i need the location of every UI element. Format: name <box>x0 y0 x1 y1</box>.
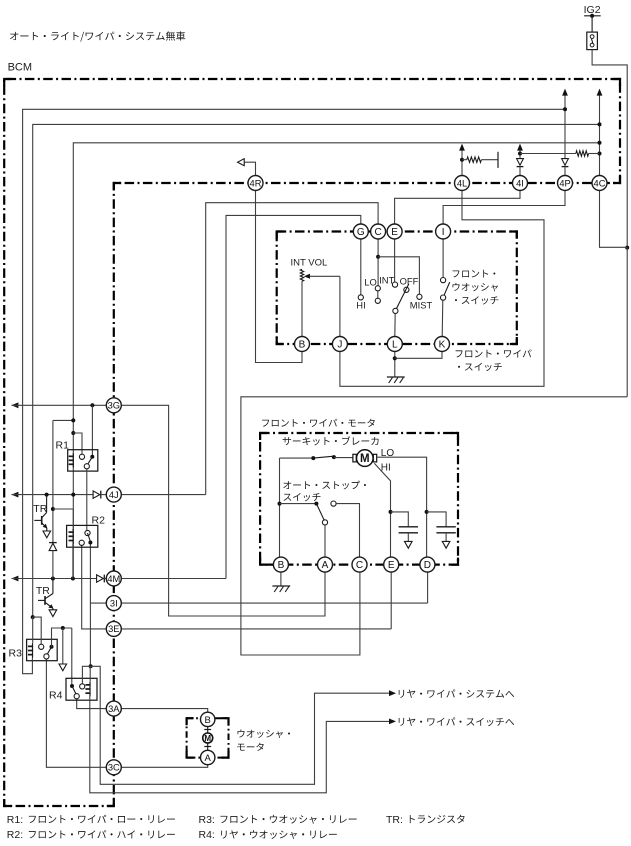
svg-text:MIST: MIST <box>410 299 433 310</box>
capacitor C1 <box>391 512 419 542</box>
svg-text:E: E <box>391 227 398 238</box>
connector D motor <box>420 557 435 572</box>
washer switch blade base <box>441 295 446 300</box>
diode on 4J line <box>93 491 101 499</box>
front wiper switch label l2 <box>458 363 502 371</box>
auto stop blade contact <box>322 520 327 525</box>
junction L/K ground <box>393 356 397 360</box>
pot wiper arrow <box>304 274 310 279</box>
wire breaker left <box>280 457 314 459</box>
junction E line capacitor <box>389 510 393 514</box>
wire resistor to terminal <box>481 159 498 161</box>
wire G to 4M line <box>226 215 361 578</box>
svg-text:R3: R3 <box>9 647 23 659</box>
relay R3 output contact <box>44 654 49 659</box>
junction R4 feed <box>89 664 93 668</box>
relay R4 output contact <box>74 694 79 699</box>
wire wiper down to J <box>339 276 341 336</box>
to rear wiper system label <box>399 689 515 697</box>
fuse IG2 <box>587 32 598 50</box>
wire E drop <box>390 572 392 629</box>
svg-text:B: B <box>278 560 285 571</box>
wire 3C to washer A <box>121 765 207 768</box>
svg-text:4M: 4M <box>107 574 120 584</box>
transistor TR1 <box>34 495 47 531</box>
svg-text:L: L <box>392 340 398 351</box>
svg-text:TR: TR <box>36 585 50 597</box>
relay R4 box <box>66 678 97 700</box>
svg-text:M: M <box>204 734 211 743</box>
front wiper motor label <box>262 419 375 427</box>
svg-text:K: K <box>439 340 446 351</box>
washer connector B <box>201 712 215 726</box>
wire TR/R2 feed column <box>52 420 54 542</box>
svg-text:BCM: BCM <box>8 62 32 74</box>
connector 4R <box>248 176 263 191</box>
wire C down <box>377 239 379 286</box>
wire 4L riser <box>461 150 463 175</box>
wire L to ground <box>394 352 396 378</box>
svg-text:C: C <box>374 227 381 238</box>
arrow 4I riser <box>517 144 523 151</box>
wire 3I left to R2/R4 column <box>90 602 106 604</box>
relay R3 coil <box>28 643 33 658</box>
auto stop switch label l1 <box>283 481 366 490</box>
arrow to rear wiper switch <box>389 719 396 725</box>
svg-text:G: G <box>357 227 365 238</box>
wire 3A to washer B <box>121 709 207 712</box>
svg-text:B: B <box>205 715 211 726</box>
junction 4L riser resistor <box>460 158 464 162</box>
wire C to 4J line <box>206 203 378 495</box>
wire R3 common up to tee <box>52 628 72 647</box>
auto stop switch label l2 <box>283 493 320 501</box>
wire pot to B <box>301 281 303 336</box>
IG2 terminal bar <box>584 15 601 17</box>
wire IG2 rail to motor C <box>241 397 627 655</box>
connector 3C <box>106 760 121 775</box>
junction 3G / R1 contact feed <box>90 403 94 407</box>
svg-text:3G: 3G <box>108 401 120 411</box>
connector 4I <box>513 176 528 191</box>
circuit breaker blade <box>313 456 334 458</box>
relay R1 box <box>68 450 98 471</box>
wire R1 output to R2 input <box>86 469 88 531</box>
wire R4 feed to rear system <box>91 666 390 784</box>
IG2 terminal junction <box>590 14 594 18</box>
svg-text:A: A <box>322 560 329 571</box>
relay R1 common <box>90 455 94 459</box>
connector 3A <box>106 701 121 716</box>
svg-text:3C: 3C <box>108 763 120 773</box>
washer connector A <box>201 750 215 764</box>
junction 4P riser bus1 <box>563 107 567 111</box>
wire diode to 4J <box>101 494 107 496</box>
wire auto stop NO to C <box>336 504 359 557</box>
svg-text:M: M <box>360 453 370 465</box>
wire R4 coil line <box>89 666 91 681</box>
wire R3 output to 3C <box>46 659 106 767</box>
wire diode to 4P <box>564 167 566 176</box>
wire diode to 4I <box>519 167 521 176</box>
svg-text:B: B <box>299 340 306 351</box>
arrow to rear wiper system <box>389 690 396 696</box>
arrow 4L riser <box>459 144 465 151</box>
auto stop NO contact <box>331 501 336 506</box>
wiper switch blade <box>396 284 409 309</box>
relay R2 blade <box>88 533 91 541</box>
relay R1 coil <box>69 453 74 467</box>
wire IG2 rail down <box>626 248 628 397</box>
wire 3E right seg <box>121 628 391 630</box>
wire blade contact to A <box>324 525 326 557</box>
connector 4L <box>455 176 470 191</box>
svg-text:4J: 4J <box>109 490 119 500</box>
terminal stub bar <box>497 152 499 168</box>
wire tee to R4 common <box>71 628 73 684</box>
svg-text:INT VOL: INT VOL <box>291 257 328 268</box>
legend R2 text <box>29 830 175 838</box>
to rear wiper switch label <box>399 717 515 726</box>
wire diode to 4M conn <box>104 578 106 580</box>
connector J <box>332 337 347 352</box>
blade base contact <box>393 308 398 313</box>
wire D drop <box>427 572 429 603</box>
arrow 3G row to B+ <box>11 402 18 408</box>
relay R4 coil <box>85 682 90 697</box>
capacitor C2 <box>427 512 456 542</box>
arrow capacitor C1 ground <box>405 541 413 548</box>
wire breaker to motor <box>334 457 354 459</box>
relay R2 NC contact <box>79 540 84 545</box>
front wiper switch box <box>277 232 517 345</box>
svg-text:R3:: R3: <box>199 814 215 826</box>
wire resistor to 4C riser <box>589 153 600 155</box>
connector 4M <box>106 571 121 586</box>
front washer switch label l1 <box>453 270 496 278</box>
junction R1 NO contact feed <box>71 431 75 435</box>
wire 4J row left <box>11 494 93 496</box>
wire 4J right seg <box>121 494 205 496</box>
ground below motor B <box>272 586 290 592</box>
arrow 4C riser to B+ <box>597 89 603 96</box>
svg-text:4R: 4R <box>250 178 262 188</box>
svg-text:C: C <box>356 560 363 571</box>
circuit breaker label <box>283 436 379 445</box>
svg-text:OFF: OFF <box>400 276 419 287</box>
connector E motor <box>384 557 399 572</box>
relay R1 NO contact <box>79 454 84 459</box>
connector C sw <box>371 224 386 239</box>
wire LO link <box>377 291 379 298</box>
motor M1 front wiper <box>353 450 377 467</box>
svg-text:3A: 3A <box>108 704 120 714</box>
svg-text:D: D <box>424 560 431 571</box>
relay R3 box <box>27 639 58 660</box>
front washer switch label l2 <box>453 283 498 292</box>
diode on R2 feed column <box>49 543 57 551</box>
wire R4 feed hook <box>82 666 90 684</box>
contact INT <box>392 282 397 287</box>
junction R3 feed <box>31 615 35 619</box>
junction auto stop feed <box>278 502 282 506</box>
auto stop blade <box>316 504 324 521</box>
junction R1 feed branch <box>71 418 75 422</box>
wire motor B to ground <box>280 572 282 586</box>
connector 3E <box>106 621 121 636</box>
wire R3 feed to NO contact <box>33 617 42 644</box>
relay R4 common <box>70 684 74 688</box>
svg-text:I: I <box>442 227 445 238</box>
connector 3G <box>106 398 121 413</box>
wire E to 4I <box>395 191 520 225</box>
relay R2 input contact <box>85 530 90 535</box>
wire bus1 to 4P riser <box>23 109 566 673</box>
washer motor label line2 <box>237 743 263 751</box>
diode on 4M line <box>97 575 105 583</box>
wire breaker riser to B <box>279 458 281 557</box>
relay R1 blade <box>88 457 93 465</box>
wire 4L resistor lead <box>462 159 467 161</box>
wire R4 output to 3A <box>77 699 107 709</box>
ground below wiper switch <box>387 377 405 383</box>
circuit breaker contact a <box>311 456 315 460</box>
wire 4M row left <box>11 578 96 580</box>
svg-text:R4:: R4: <box>199 829 215 841</box>
wire R1 branch to TR column <box>53 419 73 421</box>
wire 4R to switch B <box>256 191 303 363</box>
title text auto light/wiper system <box>10 31 185 41</box>
front wiper motor box <box>260 433 458 565</box>
legend TR text <box>410 815 465 823</box>
diode above 4I <box>517 159 524 167</box>
resistor at 4L <box>467 157 482 162</box>
connector 4J <box>106 487 121 502</box>
washer motor box <box>187 718 229 757</box>
arrow 4J row to B+ <box>11 492 18 498</box>
wire 4I riser arrow seg <box>519 150 521 158</box>
wire bus3 to 4C riser <box>73 143 599 579</box>
arrow TR2 emitter to ground <box>49 610 57 617</box>
svg-text:4L: 4L <box>457 178 467 188</box>
wire 3G row left <box>11 404 106 406</box>
junction 4J / TR1 collector <box>45 493 49 497</box>
relay R2 coil <box>69 529 74 544</box>
contact MIST <box>417 294 422 299</box>
svg-text:R4: R4 <box>49 689 63 701</box>
wire 3G to motor A <box>121 405 325 616</box>
front washer switch label l3 <box>455 296 498 304</box>
relay R4 NO contact <box>80 684 85 689</box>
wire I down <box>442 239 444 278</box>
wire R3 coil to return <box>31 658 33 661</box>
connector G <box>353 224 368 239</box>
connector A motor <box>318 557 333 572</box>
connector B sw <box>295 337 310 352</box>
wire motor LO to D <box>377 457 427 557</box>
connector 4C <box>592 176 607 191</box>
wire R2 coil line <box>72 509 74 529</box>
wire R2 output / R4 feed column <box>89 545 91 667</box>
auto stop pivot <box>314 502 318 506</box>
wire fuse to right rail <box>592 50 627 248</box>
connector 3I <box>106 596 121 611</box>
contact LO2 <box>375 298 380 303</box>
wire C to MIST contact <box>378 257 419 294</box>
svg-text:R1: R1 <box>56 439 70 451</box>
connector B motor <box>273 557 288 572</box>
junction 4M / R2 coil <box>71 577 75 581</box>
svg-text:4P: 4P <box>559 178 570 188</box>
connector E sw <box>387 224 402 239</box>
wire R4 coil to rear switch <box>90 700 389 793</box>
svg-text:A: A <box>205 753 212 764</box>
junction 4C riser resistor line <box>598 152 602 156</box>
junction 4M / TR2 collector <box>51 577 55 581</box>
circuit breaker contact b <box>332 455 336 459</box>
wire tee to arrow <box>62 628 64 664</box>
contact OFF <box>404 287 409 292</box>
arrow R3 branch (open) <box>59 664 67 671</box>
connector I <box>436 224 451 239</box>
wire blade to L <box>394 314 396 337</box>
wire R2 coil to 4M <box>72 544 74 579</box>
wire 4C branch <box>600 191 628 248</box>
washer switch blade <box>444 282 450 295</box>
arrow capacitor C2 ground <box>442 541 450 548</box>
wire G to HI contact <box>360 239 362 295</box>
relay R1 output contact <box>84 464 89 469</box>
wire 4P riser <box>564 96 566 159</box>
svg-text:TR:: TR: <box>386 814 403 826</box>
svg-text:3E: 3E <box>108 624 119 634</box>
wire IG2 to fuse <box>591 16 593 32</box>
wire R4 coil down <box>89 696 91 700</box>
transistor TR2 <box>38 579 53 610</box>
arrow at 4R (open) <box>238 159 245 166</box>
connector C motor <box>352 557 367 572</box>
wire bus2 to 4C riser <box>33 124 600 617</box>
wire auto stop feed <box>280 503 317 505</box>
relay R3 common <box>50 645 54 649</box>
wire 3I right seg <box>121 602 427 604</box>
junction 4C riser bus3 <box>598 141 602 145</box>
arrow TR1 emitter to ground <box>43 531 51 538</box>
svg-text:3I: 3I <box>110 598 118 608</box>
wire E to INT contact <box>394 239 396 282</box>
svg-text:HI: HI <box>356 299 365 310</box>
contact HI <box>358 295 363 300</box>
wire 4R to arrow <box>244 162 255 175</box>
wire to R1 contact common <box>91 405 93 457</box>
wire K to ground junction <box>395 352 442 359</box>
relay R3 NO contact <box>39 644 44 649</box>
wire J to 4L <box>340 191 544 387</box>
diode above 4P <box>562 159 569 167</box>
wire R3 coil line <box>32 617 34 643</box>
relay R2 box <box>67 525 98 547</box>
wire wiper to J <box>310 275 340 277</box>
svg-text:R1:: R1: <box>7 814 23 826</box>
svg-text:E: E <box>388 560 395 571</box>
washer motor M <box>203 726 213 750</box>
washer motor label line1 <box>238 730 291 739</box>
junction R2 coil hook <box>51 507 55 511</box>
wire 4M right seg <box>121 578 226 580</box>
connector L <box>387 337 402 352</box>
junction 4J / R1 coil <box>71 493 75 497</box>
svg-text:4C: 4C <box>594 178 606 188</box>
junction 4I riser resistor line <box>518 152 522 156</box>
wire 4I to resistor <box>520 153 576 155</box>
connector K <box>435 337 450 352</box>
junction R3 tee <box>61 626 65 630</box>
legend R4 text <box>221 830 337 839</box>
potentiometer INT VOL <box>300 269 303 281</box>
arrow 4M row to B+ <box>11 576 18 582</box>
arrow 4P riser to B+ <box>562 89 568 96</box>
wire diode to 4M <box>52 551 54 579</box>
wire washer blade to K <box>441 300 444 336</box>
legend R1 text <box>29 815 175 823</box>
wire 3E left to R2 NC <box>82 545 107 629</box>
junction C branch <box>376 255 380 259</box>
washer switch contact <box>441 278 446 283</box>
junction D line capacitor <box>425 510 429 514</box>
contact LO <box>375 286 380 291</box>
svg-text:R2: R2 <box>92 514 106 526</box>
wire hook to R2 coil line <box>53 508 73 510</box>
svg-text:J: J <box>337 340 342 351</box>
relay R3 blade <box>47 647 51 654</box>
wire motor HI to E <box>374 463 390 557</box>
svg-text:LO: LO <box>364 277 377 288</box>
relay R4 blade <box>72 686 76 694</box>
connector 4P <box>558 176 573 191</box>
junction 4C riser bus2 <box>598 122 602 126</box>
resistor 4I-4C line <box>576 151 589 156</box>
wire R1 NO hook <box>73 433 82 454</box>
relay R2 common <box>88 541 92 545</box>
legend R3 text <box>220 815 356 824</box>
junction IG2 rail / 4C branch <box>625 246 629 250</box>
svg-text:R2:: R2: <box>7 829 23 841</box>
svg-text:INT: INT <box>379 275 394 286</box>
front wiper switch label l1 <box>456 349 532 357</box>
svg-text:4I: 4I <box>516 178 524 188</box>
wire I to 4P <box>443 191 565 225</box>
wire 4C riser <box>599 96 601 176</box>
